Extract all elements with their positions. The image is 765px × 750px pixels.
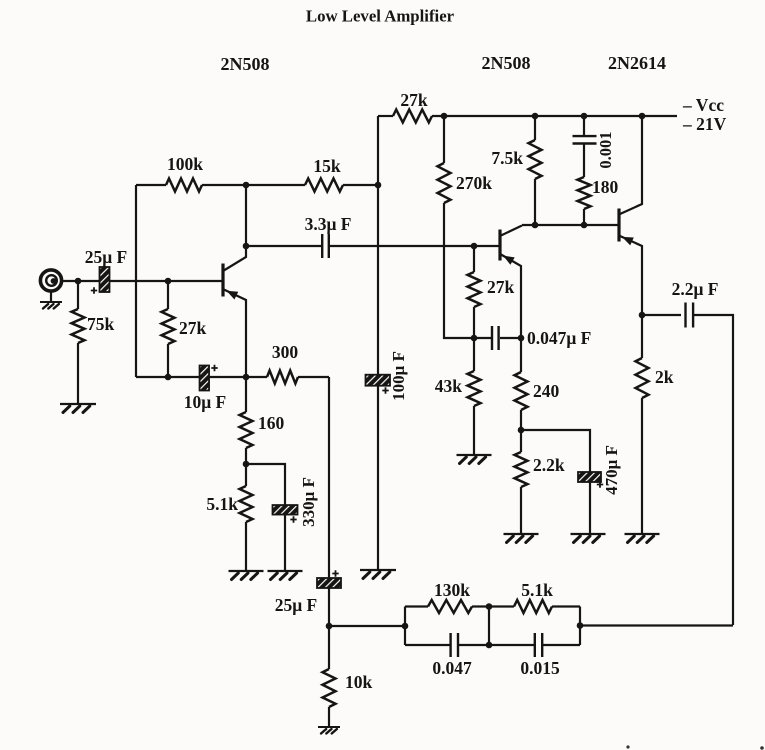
node fb left junction: [402, 623, 409, 630]
arrow Q2 emitter: [503, 256, 515, 265]
capacitor C 0.047 fb: [405, 633, 489, 657]
capacitor C 0.015 fb: [489, 633, 580, 657]
svg-text:7.5k: 7.5k: [491, 148, 523, 168]
svg-text:– 21V: – 21V: [682, 114, 727, 134]
wire bias row left: [136, 376, 200, 378]
node 7.5k rail junction: [532, 113, 539, 120]
svg-text:100μ F: 100μ F: [389, 351, 408, 401]
svg-text:5.1k: 5.1k: [206, 494, 238, 514]
node 7.5k link junction: [532, 222, 539, 229]
svg-text:2k: 2k: [655, 367, 674, 387]
capacitor C 470uF electrolytic: [578, 472, 603, 488]
resistor R 240: [515, 338, 560, 430]
node feedback right junction: [577, 622, 584, 629]
wire Q1 collector: [224, 185, 246, 271]
wire feedback bottom: [580, 624, 733, 626]
wire feed column x378: [377, 116, 379, 570]
svg-text:25μ F: 25μ F: [85, 247, 128, 267]
wire 15k right seg: [343, 184, 378, 186]
node 270k rail junction: [441, 113, 448, 120]
node fb mid bottom junction: [486, 642, 493, 649]
resistor R 160: [240, 377, 285, 464]
svg-text:43k: 43k: [435, 376, 463, 396]
svg-text:75k: 75k: [87, 314, 115, 334]
wire fb left vertical: [404, 607, 406, 646]
wire fb top right seg: [552, 605, 580, 607]
label 25uF bottom: [275, 595, 318, 615]
wire input segment: [62, 280, 100, 282]
label 0.001: [596, 131, 615, 168]
resistor R 5.1k left: [206, 464, 252, 570]
wire bias row mid: [209, 376, 267, 378]
node 160-330uF junction: [243, 461, 250, 468]
ground under 2.2k: [504, 534, 539, 543]
svg-text:2N508: 2N508: [482, 53, 531, 73]
wire Q2-Q3 base link: [522, 224, 618, 226]
wire fb right vertical: [579, 607, 581, 646]
wire Q2 collector: [501, 226, 522, 236]
svg-text:180: 180: [592, 177, 619, 197]
node 25uF junction: [326, 623, 333, 630]
wire 300 to riser: [298, 376, 329, 378]
wire base segment Q1: [110, 280, 222, 282]
wire 270k lower: [444, 203, 474, 338]
label 10uF: [184, 392, 227, 412]
label 330uF: [299, 477, 318, 527]
svg-text:160: 160: [258, 413, 285, 433]
wire 100k rail seg1: [136, 184, 166, 186]
wire fb to 25uF: [329, 625, 405, 627]
arrow Q3 emitter: [622, 237, 634, 246]
svg-text:2.2k: 2.2k: [533, 455, 565, 475]
capacitor C 2.2uF: [686, 303, 694, 328]
node 240-2.2k junction: [518, 427, 525, 434]
svg-text:Low Level Amplifier: Low Level Amplifier: [306, 7, 455, 26]
node Q2 bias junction: [471, 243, 478, 250]
node fb mid top junction: [486, 603, 493, 610]
label Q1 type 2N508: [221, 54, 270, 74]
capacitor C 0.047uF mid: [474, 326, 521, 350]
label 2.2uF: [672, 279, 719, 299]
wire fb top mid seg: [472, 605, 514, 607]
label Vcc: [682, 95, 724, 115]
label 100uF: [389, 351, 408, 401]
label -21V: [682, 114, 727, 134]
wire 25uF to junction: [328, 588, 330, 626]
wire Vcc rail left stub: [378, 115, 393, 117]
arrow Q1 emitter: [227, 291, 239, 300]
wire Q3 collector: [620, 116, 642, 214]
transistor Q2 base bar: [498, 230, 501, 261]
wire 270k column: [443, 116, 445, 163]
svg-text:0.047μ F: 0.047μ F: [527, 328, 591, 348]
resistor R 27k left: [162, 281, 207, 377]
wire Q1 emitter: [224, 290, 246, 378]
wire 100k-15k seg: [202, 184, 305, 186]
svg-text:470μ F: 470μ F: [602, 445, 621, 495]
ground under 5.1k: [229, 571, 264, 580]
resistor R 7.5k: [491, 116, 541, 225]
resistor R 180: [578, 144, 619, 226]
wire Q2 emitter: [501, 255, 521, 339]
ground under 100uF: [360, 570, 396, 579]
label 25uF input: [85, 247, 128, 267]
wire 100k rail left riser: [135, 185, 137, 377]
svg-text:2.2μ F: 2.2μ F: [672, 279, 719, 299]
resistor R 10k: [323, 626, 373, 726]
resistor R 300: [267, 342, 298, 384]
ground under 330uF: [268, 571, 303, 580]
label 0.047 fb: [432, 658, 472, 678]
ground under 75k: [60, 404, 96, 413]
svg-text:0.001: 0.001: [596, 131, 615, 168]
ground jack: [40, 302, 62, 309]
node Q3 rail junction: [639, 113, 646, 120]
label Q3 type 2N2614: [608, 53, 666, 73]
svg-text:27k: 27k: [179, 318, 207, 338]
svg-text:240: 240: [533, 381, 560, 401]
speck: [760, 746, 764, 750]
node 27kleft-row junction: [165, 374, 172, 381]
label 0.015 fb: [520, 658, 560, 678]
node 15k-feed junction: [375, 182, 382, 189]
wire fb mid vertical: [488, 607, 490, 646]
title text: [306, 7, 455, 26]
input jack J1: [40, 270, 61, 291]
wire Vcc rail: [432, 115, 677, 117]
svg-text:10k: 10k: [345, 672, 373, 692]
svg-text:15k: 15k: [313, 156, 341, 176]
wire Q3 emitter: [620, 236, 642, 315]
speck: [626, 745, 629, 748]
node 180 link junction: [581, 222, 588, 229]
label 470uF: [602, 445, 621, 495]
label Q2 type 2N508: [482, 53, 531, 73]
svg-text:25μ F: 25μ F: [275, 595, 318, 615]
capacitor C 3.3uF: [322, 234, 329, 258]
svg-text:0.015: 0.015: [520, 658, 560, 678]
wire 470uF branch: [521, 430, 590, 534]
svg-text:27k: 27k: [400, 90, 428, 110]
wire 3.3uF row left: [246, 245, 322, 247]
resistor R 75k: [72, 281, 115, 404]
node Q1 collector junction: [243, 243, 250, 250]
resistor R 100k: [166, 154, 203, 192]
svg-text:100k: 100k: [167, 154, 203, 174]
capacitor C 25uF bottom electrolytic: [317, 570, 341, 588]
node output junction: [639, 312, 646, 319]
ground under 2k: [625, 534, 660, 543]
svg-text:10μ F: 10μ F: [184, 392, 227, 412]
wire output seg: [642, 314, 681, 316]
svg-text:– Vcc: – Vcc: [682, 95, 724, 115]
resistor R 27k mid: [468, 246, 515, 338]
node input junction: [75, 278, 82, 285]
transistor Q3 base bar: [617, 209, 620, 242]
svg-text:2N2614: 2N2614: [608, 53, 666, 73]
ground under 10k: [318, 727, 340, 734]
node 0.047-emitter junction: [518, 335, 525, 342]
svg-text:27k: 27k: [487, 277, 515, 297]
capacitor C 330uF electrolytic: [273, 505, 298, 523]
wire jack stem: [50, 291, 52, 302]
label 3.3uF: [305, 214, 352, 234]
capacitor C 25uF input electrolytic: [91, 267, 110, 294]
svg-text:330μ F: 330μ F: [299, 477, 318, 527]
resistor R 270k: [438, 163, 493, 203]
node 0.001 rail junction: [581, 113, 588, 120]
node 100k-collector junction: [243, 182, 250, 189]
node emitter-row junction: [243, 374, 250, 381]
resistor R 43k: [435, 338, 481, 455]
ground under 470uF: [571, 534, 606, 543]
svg-text:130k: 130k: [434, 580, 470, 600]
resistor R 2.2k: [515, 430, 565, 534]
svg-text:5.1k: 5.1k: [521, 580, 553, 600]
resistor R 27k top: [393, 90, 432, 123]
svg-text:2N508: 2N508: [221, 54, 270, 74]
capacitor C 0.001: [573, 136, 597, 143]
ground under 43k: [457, 455, 492, 464]
resistor R 130k fb: [428, 580, 472, 613]
node base bias junction: [165, 278, 172, 285]
capacitor C 10uF electrolytic: [200, 365, 218, 391]
wire fb top left seg: [405, 605, 428, 607]
resistor R 5.1k fb: [514, 580, 553, 613]
svg-text:270k: 270k: [456, 173, 492, 193]
wire 330uF branch: [246, 464, 285, 570]
wire 0.001 upper: [583, 116, 585, 136]
transistor Q1 base bar: [221, 264, 224, 297]
capacitor C 100uF electrolytic: [366, 375, 391, 394]
node 043 row left junction: [471, 335, 478, 342]
resistor R 15k: [305, 156, 343, 192]
svg-text:3.3μ F: 3.3μ F: [305, 214, 352, 234]
wire output right: [693, 315, 733, 625]
resistor R 2k: [636, 315, 674, 534]
label 0.047uF: [527, 328, 591, 348]
wire 300 riser upper: [328, 377, 330, 578]
svg-text:0.047: 0.047: [432, 658, 472, 678]
wire 3.3uF row right: [329, 245, 499, 247]
svg-text:300: 300: [272, 342, 299, 362]
